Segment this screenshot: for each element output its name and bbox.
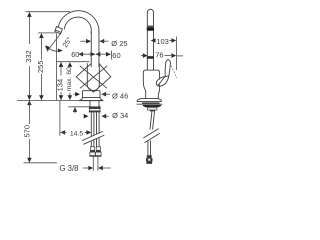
wire hose-end extension line [24,162,57,164]
wire deck bottom arrow below deck [73,107,78,112]
shank between deck lines [89,100,91,107]
handle collar crease [158,77,165,86]
base gasket side [142,102,160,104]
mounting nut front [89,107,101,109]
dimension 25 degree angle [47,33,61,52]
svg-text:103: 103 [156,37,169,46]
wire top extension line at overall-height level [26,11,70,13]
washer and nut side [143,105,162,108]
svg-text:60: 60 [112,51,120,60]
dimension Ø46 arrows [74,93,77,95]
dimension 134 vertical line [56,33,58,100]
joint ring side [147,56,154,59]
spout outer arc [58,11,99,34]
hose side upper segment [150,111,152,129]
dimension Ø25 row [80,40,90,42]
svg-text:76: 76 [155,51,163,60]
dimension 255 vertical line [40,33,42,59]
escutcheon front [83,90,101,92]
side view pipe [147,9,153,70]
dimension 14.5 row [60,130,65,135]
handle collar [156,76,169,86]
deck line side [137,103,163,105]
svg-text:14.5: 14.5 [70,131,83,138]
handle swing X [80,66,107,88]
wire handle-tip extension line [175,37,177,71]
svg-text:G 3/8: G 3/8 [59,164,78,173]
dimension 60 right [96,52,101,57]
wire connector thread extension lines [92,157,94,171]
aerator tip [55,27,63,34]
svg-text:Ø 46: Ø 46 [112,91,128,100]
svg-text:570: 570 [22,125,31,138]
svg-text:Ø 25: Ø 25 [111,39,127,48]
aerator band side [147,26,154,28]
supply hoses front upper segment [90,112,92,136]
dimension Ø34 arrows [84,114,89,119]
dimension 76 row (side view) [143,53,148,58]
wire body-top extension line [56,61,89,63]
escutcheon flare side [137,99,161,102]
wire handle-tip horizontal extension [177,55,183,57]
wire deck bottom line [68,106,101,108]
supply hoses front lower segment [90,141,92,147]
hose connector front right [96,147,100,151]
svg-text:60: 60 [71,50,79,59]
svg-text:max. 60: max. 60 [66,67,73,91]
wire extension of aerator axis below deck [59,101,61,136]
dimension 570 vertical line [27,100,32,105]
deck line front [17,99,103,101]
svg-text:134: 134 [55,79,64,92]
escutcheon flare front [80,98,103,101]
hose connector front left [90,147,94,151]
body side [143,70,159,99]
spout inner arc [64,17,91,34]
spout pipe front [90,32,92,67]
dimension max. 60 vertical line [69,93,71,100]
handle side lever blade [165,60,170,77]
svg-text:332: 332 [24,50,33,63]
hose break slashes front [82,131,103,140]
dimension 332 vertical line [28,12,30,44]
svg-text:255: 255 [36,60,45,73]
dimension 103 row (side view) [151,38,156,43]
hose break slashes side [143,129,158,138]
hose side lower segment [147,141,149,156]
body cylinder front [87,63,99,90]
handle dashed hint [171,66,176,79]
wire 255 extension line [38,32,56,34]
handle swing rhombus front [76,63,111,92]
hose connector side [147,155,152,158]
svg-text:Ø 34: Ø 34 [112,111,128,120]
